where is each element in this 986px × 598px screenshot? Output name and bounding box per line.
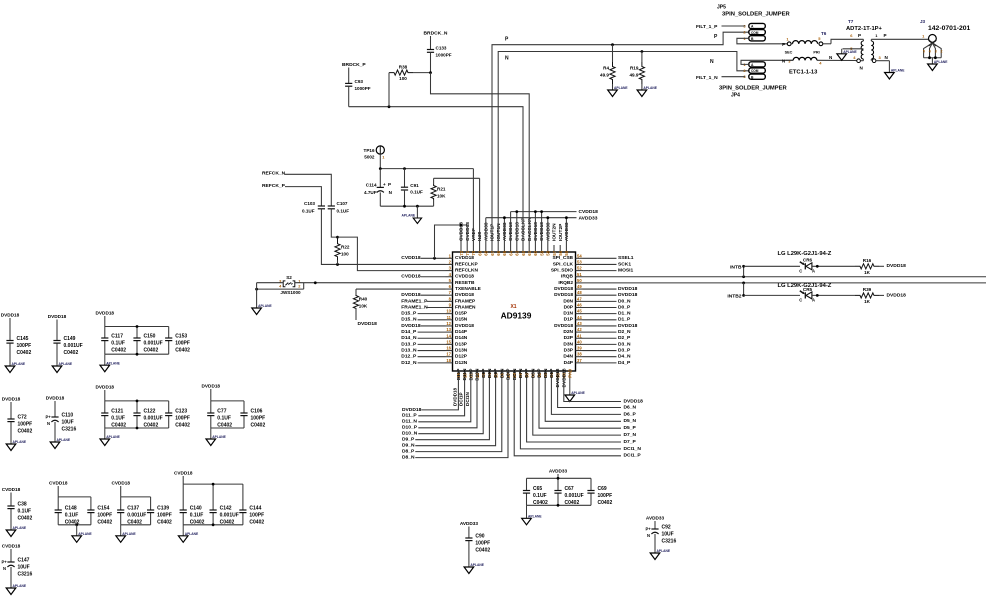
- svg-text:D0_N: D0_N: [618, 298, 631, 304]
- node D3_P wire pin 39: [583, 347, 631, 353]
- svg-text:APLANE: APLANE: [843, 50, 857, 54]
- wire INTB branch: [742, 265, 745, 277]
- svg-text:C148: C148: [65, 506, 77, 512]
- svg-text:IOUT2N: IOUT2N: [552, 223, 558, 241]
- svg-text:D11P: D11P: [456, 368, 462, 381]
- svg-text:DVDD18: DVDD18: [554, 286, 573, 292]
- svg-text:C38: C38: [18, 502, 27, 508]
- svg-text:C0402: C0402: [249, 520, 264, 526]
- svg-text:LG L29K-G2J1-94-Z: LG L29K-G2J1-94-Z: [778, 251, 832, 257]
- ground T7 center tap: [837, 49, 858, 61]
- wire N line: [498, 50, 749, 245]
- node D4_P wire pin 37: [583, 360, 631, 366]
- svg-text:D8P: D8P: [493, 368, 499, 378]
- svg-text:R4: R4: [603, 66, 609, 71]
- wire S2 left to ground: [256, 283, 258, 308]
- svg-text:72: 72: [459, 250, 464, 255]
- svg-text:49: 49: [577, 284, 582, 289]
- svg-text:P+: P+: [2, 560, 8, 565]
- svg-text:0.1UF: 0.1UF: [111, 416, 125, 422]
- svg-text:D3N: D3N: [563, 341, 573, 347]
- node D14_N wire to pin 14: [401, 335, 445, 341]
- svg-text:ETC1-1-13: ETC1-1-13: [789, 70, 818, 76]
- svg-text:C: C: [799, 269, 802, 274]
- svg-text:100PF: 100PF: [157, 513, 172, 519]
- svg-text:D10N: D10N: [475, 368, 481, 381]
- svg-text:D15N: D15N: [455, 317, 468, 323]
- svg-text:1000PF: 1000PF: [436, 53, 452, 58]
- svg-text:D0N: D0N: [563, 298, 573, 304]
- resistor R4: [600, 45, 615, 88]
- svg-text:D10_N: D10_N: [402, 431, 418, 437]
- svg-text:JP5: JP5: [717, 5, 726, 11]
- svg-text:D1_N: D1_N: [618, 311, 631, 317]
- svg-text:C0402: C0402: [64, 350, 79, 356]
- capacitor group C121 C122 C123: [96, 385, 191, 446]
- svg-text:TXENABLE: TXENABLE: [455, 286, 482, 292]
- svg-text:COM: COM: [751, 69, 759, 73]
- svg-text:D1P: D1P: [564, 317, 574, 323]
- switch S2: [279, 275, 301, 295]
- svg-text:C0402: C0402: [217, 423, 232, 429]
- svg-text:D6P: D6P: [537, 368, 543, 378]
- svg-text:AVDD33: AVDD33: [460, 521, 479, 526]
- svg-text:D13_N: D13_N: [401, 347, 417, 353]
- wire JP4 pin1 to T6: [741, 60, 793, 64]
- testpoint TP16: [364, 146, 386, 169]
- svg-text:APLANE: APLANE: [891, 69, 905, 73]
- svg-text:AVDD33: AVDD33: [549, 469, 568, 474]
- wire VREF rail: [379, 167, 474, 245]
- svg-text:DVDD18: DVDD18: [561, 368, 567, 387]
- svg-text:100: 100: [341, 252, 349, 257]
- svg-text:DVDD18: DVDD18: [887, 263, 907, 269]
- svg-text:D12_N: D12_N: [401, 360, 417, 366]
- svg-text:REFCLKP: REFCLKP: [455, 261, 478, 267]
- capacitor C90: [460, 521, 491, 574]
- svg-text:11: 11: [447, 315, 452, 320]
- svg-text:P: P: [858, 33, 861, 38]
- capacitor group C148 C154: [49, 481, 112, 543]
- connector J3 142-0701-201: [920, 19, 971, 62]
- svg-text:APLANE: APLANE: [13, 526, 27, 530]
- svg-text:R38: R38: [399, 64, 408, 69]
- svg-text:APLANE: APLANE: [212, 435, 226, 439]
- svg-text:CVDD18: CVDD18: [579, 209, 599, 215]
- svg-text:+: +: [383, 182, 386, 187]
- svg-text:C144: C144: [249, 506, 261, 512]
- ground PAD: [565, 378, 586, 402]
- svg-text:C121: C121: [111, 409, 123, 415]
- svg-text:C106: C106: [251, 409, 263, 415]
- capacitor C91: [401, 169, 423, 207]
- svg-text:APLANE: APLANE: [470, 563, 484, 567]
- wire T6 to T7 bottom: [855, 60, 857, 62]
- svg-text:C0402: C0402: [111, 423, 126, 429]
- node DVDD18 wire pin 43: [583, 323, 638, 329]
- capacitor C133: [427, 36, 452, 73]
- svg-text:C0402: C0402: [157, 520, 172, 526]
- transformer T6 ETC1-1-13: [782, 31, 855, 76]
- svg-text:C133: C133: [436, 46, 447, 51]
- svg-text:APLANE: APLANE: [106, 435, 120, 439]
- svg-text:100PF: 100PF: [18, 422, 33, 428]
- svg-text:APLANE: APLANE: [12, 362, 26, 366]
- svg-text:DCI1P: DCI1P: [459, 392, 464, 406]
- wire REFCLKP net: [321, 209, 445, 266]
- svg-text:INTB2: INTB2: [727, 293, 741, 299]
- svg-text:MOSI1: MOSI1: [618, 268, 633, 274]
- svg-text:APLANE: APLANE: [614, 86, 628, 90]
- capacitor group C77 C106: [202, 384, 266, 446]
- svg-text:16: 16: [446, 346, 451, 351]
- svg-text:10UF: 10UF: [62, 420, 74, 426]
- node D13_P wire to pin 15: [401, 341, 445, 347]
- svg-text:D13N: D13N: [455, 347, 468, 353]
- svg-text:T7: T7: [848, 19, 854, 24]
- svg-text:CR5: CR5: [803, 287, 813, 292]
- svg-text:D2N: D2N: [563, 329, 573, 335]
- node D13_N wire to pin 16: [401, 347, 445, 353]
- svg-text:C123: C123: [175, 409, 187, 415]
- node vertical labels pins 19-21: [452, 387, 469, 406]
- svg-text:55: 55: [564, 250, 569, 255]
- svg-text:0.001UF: 0.001UF: [565, 493, 584, 499]
- svg-text:10K: 10K: [437, 194, 446, 199]
- svg-text:100PF: 100PF: [598, 493, 613, 499]
- svg-text:65: 65: [502, 250, 507, 255]
- svg-text:D11_N: D11_N: [402, 419, 417, 425]
- svg-text:39: 39: [577, 346, 582, 351]
- svg-text:C3216: C3216: [62, 427, 77, 433]
- svg-text:C114: C114: [366, 183, 377, 188]
- svg-text:DVDD18: DVDD18: [455, 323, 474, 329]
- wire BRDCK_N to DACCLKN: [431, 73, 530, 245]
- svg-text:REFCLKN: REFCLKN: [455, 268, 478, 274]
- svg-text:3PIN_SOLDER_JUMPER: 3PIN_SOLDER_JUMPER: [722, 12, 790, 18]
- svg-text:D14P: D14P: [455, 329, 468, 335]
- wire P line: [492, 32, 749, 245]
- resistor R40: [353, 289, 368, 320]
- svg-text:C93: C93: [355, 79, 364, 84]
- wire CVDD18 rail pin1 to pins 71/72: [433, 224, 467, 260]
- svg-text:D6N: D6N: [530, 368, 536, 378]
- svg-text:49.9: 49.9: [600, 73, 609, 78]
- svg-text:C0402: C0402: [144, 423, 159, 429]
- svg-text:SPI_SDIO: SPI_SDIO: [551, 268, 573, 274]
- svg-text:69: 69: [477, 250, 482, 255]
- wire S2 to RESETB pin5: [257, 281, 446, 284]
- node FRAME1_N wire to pin 9: [401, 304, 445, 310]
- svg-text:X1: X1: [510, 304, 516, 310]
- svg-text:66: 66: [496, 250, 501, 255]
- svg-text:63: 63: [515, 250, 520, 255]
- svg-text:48: 48: [577, 290, 582, 295]
- svg-text:C92: C92: [662, 525, 671, 531]
- svg-text:C3216: C3216: [662, 539, 677, 545]
- resistor R38: [389, 64, 432, 81]
- svg-text:DCI1_N: DCI1_N: [624, 446, 642, 452]
- node DVDD18 below R40: [358, 321, 378, 327]
- svg-text:CR6: CR6: [803, 258, 813, 263]
- svg-text:TP16: TP16: [364, 148, 375, 153]
- node DVDD18 wire to pin 12: [401, 323, 445, 329]
- svg-text:59: 59: [539, 250, 544, 255]
- svg-text:1000PF: 1000PF: [355, 86, 371, 91]
- svg-text:D0_P: D0_P: [618, 304, 631, 310]
- svg-text:56: 56: [558, 250, 563, 255]
- svg-text:IOUT2P: IOUT2P: [558, 223, 564, 241]
- svg-text:C110: C110: [62, 413, 74, 419]
- svg-text:C0402: C0402: [18, 429, 33, 435]
- node DVDD18 wire pin 49: [583, 286, 638, 292]
- connector JP5: [717, 5, 790, 42]
- svg-text:D4_N: D4_N: [618, 354, 631, 360]
- svg-text:C107: C107: [337, 201, 348, 206]
- svg-text:R16: R16: [863, 258, 872, 263]
- capacitor C107: [328, 201, 350, 214]
- svg-text:D3_P: D3_P: [618, 347, 631, 353]
- svg-text:0.1UF: 0.1UF: [410, 190, 423, 195]
- svg-text:S2: S2: [286, 275, 292, 280]
- svg-text:D12N: D12N: [455, 360, 468, 366]
- node MOSI1 wire pin 52: [583, 268, 634, 274]
- node P at JP5: [714, 34, 718, 40]
- svg-text:APLANE: APLANE: [13, 440, 27, 444]
- svg-text:C0402: C0402: [533, 500, 548, 506]
- svg-text:D9N: D9N: [487, 368, 493, 378]
- svg-text:D6_N: D6_N: [624, 404, 637, 410]
- diode CR5: [744, 283, 855, 303]
- svg-text:C91: C91: [410, 183, 419, 188]
- svg-text:APLANE: APLANE: [13, 584, 27, 588]
- svg-text:100PF: 100PF: [175, 341, 190, 347]
- svg-text:APLANE: APLANE: [571, 391, 585, 395]
- svg-text:C139: C139: [157, 506, 169, 512]
- svg-text:IOUT1N: IOUT1N: [496, 223, 502, 241]
- svg-text:52: 52: [577, 266, 582, 271]
- svg-text:D15_P: D15_P: [401, 311, 417, 317]
- svg-text:0.1UF: 0.1UF: [533, 493, 547, 499]
- svg-text:DVDD18: DVDD18: [358, 321, 378, 327]
- svg-text:D2_N: D2_N: [618, 329, 631, 335]
- svg-text:D2_P: D2_P: [618, 335, 631, 341]
- svg-text:CVDD18: CVDD18: [539, 222, 545, 241]
- svg-text:57: 57: [552, 250, 557, 255]
- svg-text:C0402: C0402: [251, 423, 266, 429]
- svg-text:DVDD18: DVDD18: [96, 385, 115, 390]
- svg-text:DVDD18: DVDD18: [624, 398, 644, 404]
- node N label: [505, 56, 509, 62]
- svg-text:51: 51: [577, 272, 582, 277]
- svg-text:P: P: [782, 42, 785, 47]
- svg-text:54: 54: [577, 253, 582, 258]
- svg-text:0.001UF: 0.001UF: [127, 513, 146, 519]
- node D1_N wire pin 45: [583, 311, 631, 317]
- svg-text:SSEL1: SSEL1: [618, 255, 634, 261]
- svg-text:DVDD18: DVDD18: [401, 323, 421, 329]
- svg-text:3: 3: [935, 50, 937, 54]
- transformer T7 ADT2-1T-1P+ primary: [843, 19, 883, 71]
- svg-text:DVDD18: DVDD18: [401, 292, 421, 298]
- svg-text:C137: C137: [127, 506, 139, 512]
- svg-text:FRAME1_N: FRAME1_N: [401, 304, 428, 310]
- svg-text:71: 71: [465, 250, 470, 255]
- ground S2: [252, 304, 273, 314]
- svg-text:C149: C149: [64, 336, 76, 342]
- resistor R21: [431, 178, 446, 206]
- svg-text:47: 47: [577, 296, 582, 301]
- svg-text:3PIN_SOLDER_JUMPER: 3PIN_SOLDER_JUMPER: [719, 86, 787, 92]
- svg-text:APLANE: APLANE: [402, 214, 416, 218]
- capacitor C147: [2, 544, 33, 595]
- svg-text:VREF: VREF: [471, 228, 477, 241]
- svg-text:COM: COM: [751, 31, 759, 35]
- wire AVDD33 top rail: [486, 215, 598, 245]
- svg-text:C150: C150: [144, 334, 156, 340]
- svg-text:100PF: 100PF: [249, 513, 264, 519]
- svg-text:DVDD18: DVDD18: [455, 292, 474, 298]
- svg-text:DVDD18: DVDD18: [202, 384, 221, 389]
- svg-text:C103: C103: [304, 201, 315, 206]
- svg-text:D15P: D15P: [455, 311, 468, 317]
- wire I120 to R21: [434, 178, 480, 245]
- svg-text:D13P: D13P: [455, 341, 468, 347]
- svg-text:P: P: [884, 33, 887, 38]
- svg-text:APLANE: APLANE: [59, 362, 73, 366]
- svg-text:0.1UF: 0.1UF: [111, 341, 125, 347]
- svg-text:53: 53: [577, 259, 582, 264]
- svg-text:D2P: D2P: [564, 335, 574, 341]
- wire INTB2 branch: [742, 283, 745, 297]
- svg-text:100PF: 100PF: [17, 343, 32, 349]
- svg-text:D9_P: D9_P: [402, 437, 415, 443]
- svg-text:DVDD18: DVDD18: [96, 311, 115, 316]
- svg-text:DVDD18: DVDD18: [887, 292, 907, 298]
- resistor R19: [629, 52, 644, 89]
- svg-text:JWS1000: JWS1000: [280, 290, 301, 295]
- transformer T7 secondary: [871, 33, 889, 63]
- svg-text:D8N: D8N: [499, 368, 505, 378]
- wire CVDD18 top rail: [511, 209, 598, 245]
- svg-text:N: N: [710, 59, 714, 65]
- capacitor C72: [2, 397, 33, 451]
- svg-text:C0402: C0402: [17, 350, 32, 356]
- capacitor group C65 C67 C69: [522, 469, 613, 525]
- svg-text:C0402: C0402: [475, 548, 490, 554]
- svg-text:D7_P: D7_P: [624, 439, 637, 445]
- svg-text:37: 37: [577, 358, 582, 363]
- svg-text:DVDD18: DVDD18: [402, 407, 422, 413]
- svg-text:C0402: C0402: [175, 423, 190, 429]
- wire bottom-left fanout D8..D11: [402, 378, 508, 461]
- node SSEL1 wire pin 54: [583, 255, 634, 261]
- connector JP4: [719, 62, 787, 99]
- svg-text:JP4: JP4: [731, 93, 740, 99]
- svg-text:PAD: PAD: [568, 369, 573, 378]
- node FILT_1_P: [696, 24, 745, 30]
- capacitor C38: [2, 487, 33, 537]
- svg-text:SEC: SEC: [785, 50, 793, 54]
- svg-text:CVDD18: CVDD18: [514, 222, 520, 241]
- node DVDD18 wire pin 48: [583, 292, 638, 298]
- svg-text:D9_N: D9_N: [402, 443, 415, 449]
- capacitor C145: [1, 313, 32, 373]
- svg-text:SPI_CLK: SPI_CLK: [553, 261, 574, 267]
- svg-text:DVDD18: DVDD18: [1, 313, 20, 318]
- node D14_P wire to pin 13: [401, 329, 445, 335]
- svg-text:C140: C140: [190, 506, 202, 512]
- wire S2 lower: [255, 283, 304, 291]
- svg-text:D12P: D12P: [455, 354, 468, 360]
- svg-text:44: 44: [577, 315, 582, 320]
- node D12_N wire to pin 18: [401, 360, 445, 366]
- svg-text:D7_N: D7_N: [624, 432, 637, 438]
- svg-text:C67: C67: [565, 486, 574, 492]
- capacitor group C137 C139: [111, 481, 172, 543]
- svg-text:DCI1_P: DCI1_P: [624, 453, 642, 459]
- svg-text:DVDD18: DVDD18: [2, 397, 21, 402]
- svg-text:AVDD33: AVDD33: [483, 222, 489, 241]
- svg-text:0.1UF: 0.1UF: [337, 209, 350, 214]
- svg-text:61: 61: [527, 250, 532, 255]
- svg-text:CVDD18: CVDD18: [2, 544, 21, 549]
- svg-text:D4_P: D4_P: [618, 360, 631, 366]
- svg-text:0.001UF: 0.001UF: [220, 513, 239, 519]
- svg-text:D12_P: D12_P: [401, 354, 417, 360]
- svg-text:C154: C154: [97, 506, 109, 512]
- svg-text:DVDD18: DVDD18: [452, 387, 457, 406]
- svg-text:D7N: D7N: [518, 368, 524, 378]
- svg-text:50: 50: [577, 278, 582, 283]
- node D4_N wire pin 38: [583, 354, 631, 360]
- wire REFCLKN net: [331, 209, 445, 271]
- svg-text:4: 4: [929, 50, 931, 54]
- svg-text:DCIP: DCIP: [506, 368, 512, 380]
- capacitor C93: [345, 68, 371, 107]
- ground VREF node: [402, 206, 422, 223]
- svg-text:R19: R19: [630, 66, 639, 71]
- svg-text:C0402: C0402: [598, 500, 613, 506]
- diode CR6: [744, 251, 855, 274]
- svg-text:49.9: 49.9: [629, 73, 638, 78]
- svg-text:100: 100: [399, 76, 407, 81]
- svg-text:0.1UF: 0.1UF: [18, 509, 32, 515]
- svg-text:4.7UF: 4.7UF: [364, 190, 377, 195]
- svg-text:DACCLKN: DACCLKN: [527, 217, 533, 241]
- svg-text:C77: C77: [217, 409, 226, 415]
- svg-text:D5N: D5N: [543, 368, 549, 378]
- svg-text:APLANE: APLANE: [185, 532, 199, 536]
- svg-text:D8_P: D8_P: [402, 449, 415, 455]
- svg-text:APLANE: APLANE: [122, 532, 136, 536]
- svg-text:N: N: [47, 421, 50, 426]
- svg-text:CVDD18: CVDD18: [401, 274, 421, 280]
- IC X1 AD9139: [446, 217, 583, 388]
- node D1_P wire pin 44: [583, 317, 631, 323]
- svg-text:FRAMEP: FRAMEP: [455, 298, 476, 304]
- svg-text:C0402: C0402: [190, 520, 205, 526]
- svg-text:DVDD18: DVDD18: [554, 292, 573, 298]
- svg-text:C: C: [799, 298, 802, 303]
- svg-text:C0402: C0402: [18, 516, 33, 522]
- svg-text:C122: C122: [144, 409, 156, 415]
- node D2_N wire pin 42: [583, 329, 631, 335]
- svg-text:5002: 5002: [364, 155, 375, 160]
- svg-text:AD9139: AD9139: [501, 310, 532, 320]
- node P label: [505, 37, 509, 43]
- svg-text:DVDD18: DVDD18: [555, 368, 561, 387]
